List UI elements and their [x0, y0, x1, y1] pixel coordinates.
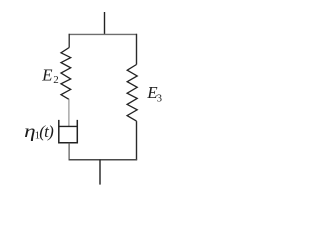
- spring E3: [127, 65, 137, 122]
- wire below dashpot: [68, 143, 70, 161]
- svg-text:(t): (t): [39, 122, 54, 141]
- spring E2: [61, 48, 71, 100]
- svg-text:3: 3: [157, 93, 162, 104]
- svg-text:2: 2: [53, 74, 59, 86]
- wire left branch top: [68, 34, 70, 48]
- top terminal stub: [104, 12, 106, 34]
- bottom terminal stub: [99, 160, 101, 185]
- wire right branch bottom: [136, 121, 138, 160]
- wire piston rod: [68, 99, 70, 126]
- wire right branch top: [136, 34, 138, 65]
- dashpot piston: [58, 125, 77, 127]
- top bar wire: [69, 33, 137, 35]
- svg-text:E: E: [41, 65, 53, 84]
- bottom bar wire: [69, 159, 138, 161]
- dashpot cup: [59, 120, 78, 143]
